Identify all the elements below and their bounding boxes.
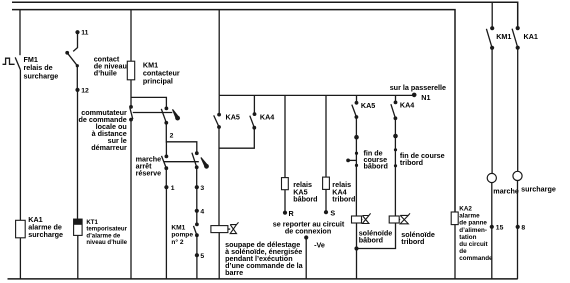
svg-text:du circuit: du circuit — [459, 241, 488, 248]
svg-text:surcharge: surcharge — [521, 185, 556, 194]
svg-text:S: S — [330, 208, 335, 217]
svg-text:d’alimen-: d’alimen- — [459, 227, 487, 234]
svg-text:tation: tation — [459, 234, 476, 241]
svg-text:bâbord: bâbord — [293, 195, 317, 204]
svg-text:bâbord: bâbord — [364, 162, 388, 171]
svg-text:niveau d’huile: niveau d’huile — [86, 239, 127, 246]
svg-text:tribord: tribord — [332, 195, 355, 204]
svg-text:tribord: tribord — [400, 158, 423, 167]
svg-text:pompe: pompe — [171, 232, 193, 239]
svg-text:alarme: alarme — [459, 213, 480, 220]
svg-text:commande: commande — [459, 255, 493, 262]
svg-text:8: 8 — [521, 225, 525, 232]
svg-text:KA4: KA4 — [260, 112, 274, 121]
svg-text:surcharge: surcharge — [28, 230, 63, 239]
svg-text:KA2: KA2 — [459, 206, 472, 213]
svg-text:KA4: KA4 — [400, 101, 414, 110]
svg-text:KA5: KA5 — [226, 112, 240, 121]
svg-text:de panne: de panne — [459, 220, 487, 227]
svg-text:N1: N1 — [421, 93, 430, 102]
svg-text:2: 2 — [170, 132, 174, 139]
svg-text:11: 11 — [81, 30, 88, 37]
svg-text:15: 15 — [496, 224, 504, 231]
svg-text:n° 2: n° 2 — [171, 238, 183, 246]
svg-text:3: 3 — [200, 185, 204, 192]
svg-text:KA1: KA1 — [524, 32, 538, 41]
svg-text:-Ve: -Ve — [314, 241, 325, 250]
svg-text:tribord: tribord — [401, 237, 424, 246]
svg-text:5: 5 — [200, 253, 204, 260]
svg-text:KA5: KA5 — [361, 101, 375, 110]
svg-text:démarreur: démarreur — [91, 143, 127, 152]
svg-text:barre: barre — [225, 268, 243, 277]
svg-text:d’huile: d’huile — [94, 68, 117, 77]
svg-text:12: 12 — [81, 87, 89, 94]
svg-text:réserve: réserve — [136, 169, 162, 178]
svg-text:bâbord: bâbord — [359, 235, 383, 244]
svg-text:4: 4 — [200, 208, 204, 215]
svg-text:1: 1 — [171, 185, 175, 192]
svg-text:de: de — [459, 248, 467, 255]
svg-text:KM1: KM1 — [171, 224, 185, 231]
svg-text:marche: marche — [493, 186, 519, 195]
svg-text:principal: principal — [143, 77, 173, 86]
svg-text:sur la passerelle: sur la passerelle — [390, 83, 446, 92]
svg-text:surcharge: surcharge — [24, 71, 59, 80]
svg-text:de connexion: de connexion — [285, 226, 331, 235]
svg-text:R: R — [289, 209, 295, 218]
svg-text:KM1: KM1 — [496, 32, 511, 41]
